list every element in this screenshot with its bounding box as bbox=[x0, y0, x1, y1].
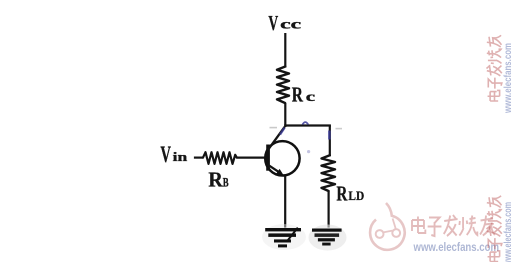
watermark text fa (发) bbox=[444, 215, 458, 236]
watermark vertical bottom-right: 电子发烧友 (rotated) bbox=[486, 196, 501, 262]
watermark vertical top-right: 电子发烧友 (rotated) bbox=[486, 35, 501, 101]
node Vcc label bbox=[268, 11, 301, 35]
ground (emitter) bbox=[265, 228, 301, 247]
wire Vcc to Rc bbox=[284, 33, 286, 68]
svg-text:cc: cc bbox=[280, 17, 301, 32]
svg-text:c: c bbox=[306, 89, 315, 104]
svg-text:R: R bbox=[336, 182, 348, 206]
transistor Q1 collector stroke bbox=[268, 127, 285, 150]
svg-text:R: R bbox=[292, 83, 304, 107]
blue arc bump on horizontal wire bbox=[303, 122, 309, 125]
label Rc bbox=[292, 83, 315, 107]
wire Vin lead bbox=[194, 157, 204, 159]
wire collector node to RLD (horizontal) bbox=[284, 124, 331, 126]
ground (RLD) bbox=[312, 229, 342, 246]
transistor Q1 base bar bbox=[266, 145, 270, 171]
node Vin label bbox=[160, 142, 187, 167]
svg-text:in: in bbox=[173, 150, 188, 164]
label RB bbox=[208, 167, 229, 191]
wire RB to base bbox=[237, 157, 267, 159]
gray smudge behind ground 1 bbox=[262, 224, 306, 250]
blue ink streak on RLD wire bbox=[328, 131, 331, 140]
svg-text:B: B bbox=[223, 174, 229, 189]
blue ink streak on collector stroke bbox=[280, 128, 285, 135]
transistor Q1 circle bbox=[265, 141, 299, 175]
svg-text:www.elecfans.com: www.elecfans.com bbox=[502, 43, 514, 114]
svg-text:R: R bbox=[208, 167, 223, 191]
label RLD bbox=[336, 182, 364, 206]
gray smudge behind ground 2 bbox=[309, 225, 347, 251]
svg-text:www.elecfans.com: www.elecfans.com bbox=[502, 202, 514, 262]
transistor Q1 emitter stroke with arrow bbox=[268, 165, 280, 173]
gray mark right of corner bbox=[336, 128, 343, 130]
wire emitter down bbox=[284, 176, 286, 228]
faint blue dot near circle right bbox=[307, 150, 310, 153]
resistor Rc bbox=[277, 67, 289, 104]
watermark text dian (电) bbox=[412, 217, 425, 234]
svg-text:V: V bbox=[268, 11, 278, 35]
gray mark left of node bbox=[270, 127, 278, 129]
resistor RB bbox=[203, 152, 237, 164]
watermark text zi (子) bbox=[428, 218, 442, 237]
resistor RLD bbox=[322, 155, 336, 191]
svg-text:LD: LD bbox=[348, 188, 364, 203]
wire RLD bottom bbox=[328, 191, 330, 228]
watermark logo circle bbox=[370, 203, 405, 250]
watermark text shao (烧) bbox=[459, 216, 477, 236]
wire RLD top bbox=[329, 126, 331, 157]
svg-text:V: V bbox=[160, 142, 171, 167]
watermark text you (友) bbox=[480, 216, 495, 236]
wire Rc to collector node bbox=[284, 103, 286, 127]
svg-text:www.elecfans.com: www.elecfans.com bbox=[413, 240, 499, 254]
ground (emitter) hatch stroke bbox=[287, 228, 298, 242]
